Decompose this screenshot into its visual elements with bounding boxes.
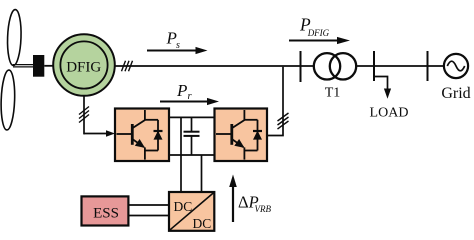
dc-dc converter diagonal — [170, 193, 214, 231]
svg-text:s: s — [176, 40, 180, 51]
generator DFIG outer circle — [53, 34, 115, 96]
svg-text:T1: T1 — [325, 86, 341, 101]
gearbox hub — [33, 55, 44, 77]
svg-text:Grid: Grid — [441, 85, 470, 102]
svg-text:VRB: VRB — [255, 204, 272, 214]
rotor-side converter box — [115, 109, 169, 162]
dc-dc converter box — [169, 192, 214, 231]
rotor-side converter IGBT symbol — [117, 110, 163, 160]
svg-text:DC: DC — [193, 216, 212, 231]
ESS box — [82, 196, 129, 225]
dc link left wire down to chopper — [180, 117, 182, 192]
three-phase slashes on converter output — [278, 113, 289, 129]
turbine blade top — [7, 9, 22, 65]
stator wire to bus — [115, 65, 314, 67]
three-phase slashes on rotor wire — [79, 107, 89, 123]
transformer T1 circle 2 — [330, 53, 356, 79]
LOAD feeder wire — [374, 77, 391, 99]
grid sine wave — [447, 61, 464, 71]
arrow P_DFIG — [289, 37, 350, 44]
grid-side converter output wire — [267, 67, 283, 136]
rotor wire into converter with arrow — [84, 130, 115, 136]
ESS to dc-dc wire upper — [128, 204, 169, 206]
dc link capacitor — [184, 117, 200, 155]
arrow delta P VRB — [229, 175, 237, 223]
bus line right of transformer — [356, 65, 444, 67]
ESS to dc-dc wire lower — [128, 215, 169, 217]
svg-text:LOAD: LOAD — [370, 106, 409, 121]
grid-side converter box — [215, 109, 268, 162]
bus bar 3 — [427, 51, 429, 81]
svg-text:P: P — [176, 81, 187, 100]
rotor wire down from generator — [83, 96, 85, 134]
turbine blade bottom — [0, 70, 15, 130]
grid-side converter IGBT symbol — [216, 110, 262, 160]
dc link top rail — [169, 116, 215, 118]
transformer T1 circle 1 — [314, 53, 340, 79]
arrow Pr — [160, 98, 219, 105]
svg-text:ESS: ESS — [93, 206, 119, 222]
grid source circle — [444, 54, 468, 78]
bus bar 1 — [300, 51, 302, 82]
svg-text:DC: DC — [174, 199, 193, 214]
dc link bottom rail — [169, 154, 215, 156]
rotor shaft double line — [13, 65, 34, 67]
generator DFIG inner circle — [60, 41, 107, 88]
arrow Ps — [147, 47, 208, 54]
svg-text:DFIG: DFIG — [307, 28, 330, 38]
bus bar 2 — [373, 51, 375, 81]
shaft to generator — [44, 65, 54, 67]
svg-text:DFIG: DFIG — [66, 59, 101, 75]
dc link right wire down to chopper — [201, 155, 203, 193]
three-phase slashes on stator wire — [122, 61, 133, 72]
